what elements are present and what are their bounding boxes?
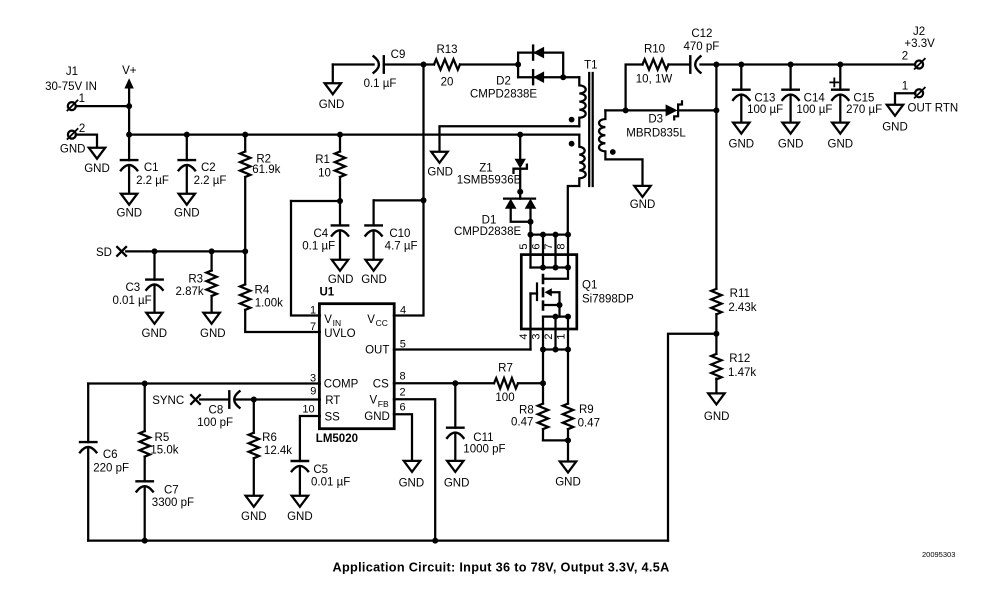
svg-text:3: 3	[531, 333, 543, 339]
svg-text:0.47: 0.47	[578, 418, 600, 430]
capacitor C8 100pF	[228, 391, 230, 407]
svg-text:SYNC: SYNC	[152, 395, 184, 407]
svg-text:6: 6	[400, 402, 406, 414]
resistor R8 0.47	[538, 404, 548, 430]
wire bias winding to ground	[440, 126, 580, 152]
wire GND pin6	[394, 414, 412, 461]
svg-text:R9: R9	[579, 404, 594, 416]
wire output rail to J2	[716, 63, 915, 65]
svg-text:8: 8	[556, 243, 568, 249]
svg-text:100 µF: 100 µF	[747, 104, 783, 116]
wire VIN node horizontal	[291, 200, 340, 202]
svg-text:GND: GND	[328, 274, 354, 286]
wire source right leg	[567, 350, 569, 441]
svg-text:2: 2	[79, 123, 85, 135]
svg-text:1: 1	[556, 333, 568, 339]
svg-text:MBRD835L: MBRD835L	[626, 127, 686, 139]
svg-text:R8: R8	[519, 405, 534, 417]
svg-text:GND: GND	[174, 208, 200, 220]
capacitor C6 220pF	[87, 384, 89, 541]
svg-text:0.01 µF: 0.01 µF	[112, 295, 151, 307]
svg-text:1SMB5936B: 1SMB5936B	[457, 175, 522, 187]
wire D1 cathode bar	[504, 197, 535, 199]
capacitor C3 0.01uF	[153, 251, 155, 312]
resistor R9 0.47	[563, 404, 573, 430]
svg-text:D2: D2	[496, 76, 511, 88]
svg-text:C1: C1	[144, 162, 159, 174]
svg-text:Z1: Z1	[479, 163, 492, 175]
Q1 pin 7	[554, 235, 556, 268]
capacitor C5 0.01uF	[292, 460, 308, 462]
svg-text:R1: R1	[315, 154, 330, 166]
svg-text:0.1 µF: 0.1 µF	[364, 78, 397, 90]
svg-text:U1: U1	[319, 287, 334, 299]
svg-text:1.47k: 1.47k	[728, 367, 756, 379]
wire OUT pin5 to Q1 gate	[394, 348, 531, 350]
ground C14	[782, 123, 798, 134]
Q1 pin 3	[542, 317, 544, 350]
svg-text:GND: GND	[60, 144, 86, 156]
wire to R10	[626, 65, 643, 111]
resistor R7 100	[494, 378, 518, 388]
ground R12	[708, 393, 724, 404]
svg-text:1: 1	[310, 304, 316, 316]
svg-text:GND: GND	[778, 138, 804, 150]
svg-text:30-75V IN: 30-75V IN	[45, 81, 97, 93]
ground C13	[733, 123, 749, 134]
svg-text:9: 9	[310, 385, 316, 397]
Q1 pin 1	[567, 317, 569, 350]
wire SS pin10 to C5	[300, 416, 320, 496]
svg-text:Si7898DP: Si7898DP	[582, 294, 634, 306]
svg-text:C10: C10	[389, 228, 410, 240]
svg-text:LM5020: LM5020	[316, 433, 358, 445]
Q1 drain bar	[531, 266, 569, 268]
resistor R12 1.47k	[711, 354, 721, 380]
Q1 source bar	[543, 315, 568, 317]
Q1 pin 6	[542, 235, 544, 268]
wire D3 anode/cathode	[626, 109, 717, 111]
Q1 source leads	[544, 292, 560, 316]
wire VIN node to pin 1	[291, 201, 320, 316]
svg-text:GND: GND	[630, 199, 656, 211]
svg-text:2.2 µF: 2.2 µF	[136, 175, 169, 187]
ground C3	[146, 313, 162, 324]
ground C5	[292, 496, 308, 507]
svg-text:SS: SS	[325, 411, 341, 423]
svg-text:15.0k: 15.0k	[150, 445, 178, 457]
svg-text:SD: SD	[96, 247, 112, 259]
svg-text:1.00k: 1.00k	[255, 297, 283, 309]
transformer T1 bias winding	[579, 77, 585, 126]
svg-text:20: 20	[441, 77, 454, 89]
Q1 mosfet gate	[536, 284, 538, 301]
svg-text:Q1: Q1	[582, 280, 597, 292]
svg-text:CC: CC	[376, 318, 388, 328]
svg-text:COMP: COMP	[324, 379, 359, 391]
svg-text:+3.3V: +3.3V	[904, 38, 935, 50]
Q1 mosfet channel	[542, 274, 545, 311]
svg-text:C15: C15	[853, 93, 874, 105]
svg-text:GND: GND	[241, 511, 267, 523]
capacitor C2 2.2uF	[186, 135, 188, 194]
svg-text:4: 4	[400, 304, 406, 316]
svg-text:GND: GND	[444, 477, 470, 489]
wire secondary top	[605, 109, 625, 111]
ground C4	[332, 260, 348, 271]
svg-text:R12: R12	[729, 353, 750, 365]
C15 polarity plus	[830, 78, 838, 86]
capacitor C13	[740, 65, 742, 123]
svg-text:5: 5	[518, 243, 530, 249]
svg-text:7: 7	[543, 243, 555, 249]
svg-text:2.43k: 2.43k	[728, 302, 756, 314]
ground C15	[832, 123, 848, 134]
svg-text:J1: J1	[66, 66, 78, 78]
svg-text:CS: CS	[373, 379, 389, 391]
ground R3	[203, 313, 219, 324]
svg-text:RT: RT	[325, 395, 340, 407]
svg-text:2: 2	[543, 333, 555, 339]
svg-text:Application Circuit: Input 36: Application Circuit: Input 36 to 78V, Ou…	[333, 561, 670, 575]
svg-text:C13: C13	[754, 93, 775, 105]
svg-text:GND: GND	[704, 411, 730, 423]
Q1 pin 2	[554, 317, 556, 350]
resistor R6 12.4k	[253, 400, 255, 496]
svg-text:CMPD2838E: CMPD2838E	[470, 88, 537, 100]
svg-text:GND: GND	[882, 122, 908, 134]
resistor R10 10 1W	[643, 59, 669, 69]
wire CS pin8	[394, 382, 543, 384]
svg-text:C9: C9	[391, 49, 406, 61]
svg-text:V: V	[367, 314, 375, 326]
svg-text:100 pF: 100 pF	[197, 417, 233, 429]
ground C9	[325, 83, 341, 94]
ground J1 pin2	[89, 148, 105, 159]
capacitor C12 470pF	[689, 56, 691, 72]
svg-text:2: 2	[400, 387, 406, 399]
ground C1	[121, 194, 137, 205]
connector J2	[915, 61, 923, 69]
svg-text:0.47: 0.47	[511, 417, 533, 429]
svg-text:C5: C5	[313, 464, 328, 476]
svg-text:C7: C7	[164, 484, 179, 496]
svg-text:10: 10	[302, 404, 314, 416]
T1 secondary phase dot	[610, 149, 616, 155]
svg-text:V: V	[324, 314, 332, 326]
svg-text:GND: GND	[427, 167, 453, 179]
capacitor C4 0.1uF	[339, 201, 341, 260]
svg-text:FB: FB	[378, 399, 389, 409]
svg-text:12.4k: 12.4k	[264, 445, 292, 457]
ground R8 R9	[560, 462, 576, 473]
wire output node down to R11	[715, 65, 717, 289]
svg-text:GND: GND	[84, 163, 110, 175]
svg-text:GND: GND	[319, 99, 345, 111]
T1 primary phase dot	[569, 141, 575, 147]
svg-text:1: 1	[79, 93, 85, 105]
resistor R3 2.87k	[210, 251, 212, 312]
capacitor C9 0.1uF	[383, 56, 385, 72]
svg-text:2.2 µF: 2.2 µF	[194, 175, 227, 187]
wire SD line	[126, 250, 245, 252]
svg-text:R11: R11	[730, 288, 750, 300]
resistor R4 1.00k	[245, 251, 320, 332]
Q1 gate pin 4	[529, 294, 531, 350]
wire D2 branches	[518, 53, 579, 78]
ground C2	[179, 194, 195, 205]
svg-text:GND: GND	[364, 411, 390, 423]
transformer T1 secondary winding	[599, 110, 643, 185]
svg-text:IN: IN	[333, 318, 342, 328]
svg-text:V: V	[370, 395, 378, 407]
node V+	[128, 89, 130, 135]
wire COMP pin3	[88, 382, 320, 384]
svg-text:R13: R13	[436, 44, 457, 56]
svg-text:100 µF: 100 µF	[796, 104, 832, 116]
capacitor C15	[839, 65, 841, 123]
svg-text:1: 1	[902, 81, 908, 93]
wire R8 R9 to ground	[543, 440, 568, 461]
Q1 pin 8	[567, 235, 569, 268]
wire Z1 branch	[519, 135, 521, 199]
svg-text:R10: R10	[644, 43, 665, 55]
resistor R2 61.9k	[244, 135, 246, 251]
connector J1	[68, 102, 76, 110]
svg-text:J2: J2	[913, 26, 925, 38]
svg-text:C11: C11	[473, 432, 493, 444]
wire D2 left branch	[517, 53, 519, 78]
capacitor C10 4.7uF	[372, 200, 374, 259]
svg-text:R7: R7	[498, 363, 513, 375]
wire J2 pin1 to ground	[895, 93, 915, 105]
svg-text:3300 pF: 3300 pF	[152, 497, 194, 509]
svg-text:R5: R5	[155, 432, 170, 444]
svg-text:2: 2	[902, 51, 908, 63]
ground C11	[447, 461, 463, 472]
svg-text:C14: C14	[804, 93, 826, 105]
wire C8 to RT pin9	[236, 398, 320, 400]
svg-text:OUT RTN: OUT RTN	[908, 103, 959, 115]
ground OUT RTN	[887, 105, 903, 116]
wire D1 anodes	[511, 209, 531, 235]
wire C9 to R13 to D2	[384, 63, 518, 65]
svg-text:6: 6	[531, 243, 543, 249]
svg-text:GND: GND	[361, 274, 387, 286]
svg-text:20095303: 20095303	[922, 550, 955, 559]
svg-text:220 pF: 220 pF	[93, 462, 129, 474]
svg-text:GND: GND	[117, 208, 143, 220]
wire feedback to bottom rail	[668, 334, 716, 541]
svg-text:10, 1W: 10, 1W	[636, 74, 673, 86]
wire SYNC to C8	[200, 398, 229, 400]
transformer T1 core	[589, 73, 593, 186]
Q1 drain bus	[531, 233, 569, 235]
Q1 body arrow	[545, 288, 552, 296]
wire VCC vertical to pin 4	[394, 65, 424, 316]
svg-text:0.1 µF: 0.1 µF	[302, 241, 335, 253]
capacitor C11 1000pF	[454, 383, 456, 461]
wire input bus V+	[129, 133, 579, 135]
ground R6	[246, 496, 262, 507]
wire source left leg	[542, 350, 544, 441]
svg-text:V+: V+	[122, 65, 137, 77]
wire bottom feedback rail	[88, 539, 668, 541]
resistor R5 15.0k	[144, 384, 146, 482]
ground U1 pin6	[404, 461, 420, 472]
capacitor C7 3300pF	[144, 486, 146, 540]
ground bias winding	[431, 152, 447, 163]
svg-text:R4: R4	[255, 285, 270, 297]
svg-text:0.01 µF: 0.01 µF	[311, 476, 350, 488]
svg-text:C3: C3	[125, 282, 140, 294]
svg-text:61.9k: 61.9k	[252, 164, 280, 176]
svg-text:4: 4	[518, 333, 530, 339]
ground secondary	[634, 186, 650, 197]
resistor R1 10	[339, 135, 341, 201]
svg-text:R6: R6	[262, 432, 277, 444]
svg-text:GND: GND	[729, 138, 755, 150]
svg-text:C8: C8	[209, 404, 224, 416]
svg-text:270 µF: 270 µF	[846, 104, 882, 116]
svg-text:C4: C4	[313, 228, 328, 240]
svg-text:8: 8	[400, 370, 406, 382]
svg-text:D1: D1	[482, 214, 497, 226]
Q1 mosfet drain lead	[544, 268, 569, 279]
resistor R11 2.43k	[711, 289, 721, 315]
capacitor C1 2.2uF	[128, 135, 130, 194]
wire VFB pin2 to feedback rail	[394, 399, 435, 540]
capacitor C14	[789, 65, 791, 123]
svg-text:R3: R3	[188, 273, 203, 285]
resistor R13 20	[434, 59, 460, 69]
svg-text:C6: C6	[103, 449, 118, 461]
ground C10	[365, 260, 381, 271]
wire R10 to C12	[669, 63, 691, 65]
transformer T1 primary winding	[568, 135, 586, 235]
svg-text:10: 10	[318, 167, 331, 179]
svg-text:C12: C12	[691, 28, 712, 40]
svg-text:GND: GND	[200, 328, 226, 340]
wire R11 R12 column	[715, 314, 717, 393]
svg-text:GND: GND	[287, 511, 313, 523]
wire J1 pin1 to V+ node	[76, 105, 129, 107]
svg-text:GND: GND	[555, 477, 581, 489]
Q1 package box	[521, 255, 577, 329]
wire J1 pin2 to ground	[76, 135, 97, 148]
svg-text:C2: C2	[201, 162, 216, 174]
svg-text:D3: D3	[648, 114, 663, 126]
svg-text:OUT: OUT	[365, 345, 389, 357]
wire C12 to output node	[701, 63, 717, 65]
wire C9 gnd stem	[332, 65, 334, 84]
svg-text:4.7 µF: 4.7 µF	[385, 241, 418, 253]
svg-text:GND: GND	[828, 138, 854, 150]
wire gnd to C9	[333, 63, 374, 65]
svg-text:T1: T1	[584, 59, 597, 71]
svg-text:GND: GND	[399, 477, 425, 489]
op-amp U1 LM5020 controller	[319, 304, 394, 429]
svg-text:UVLO: UVLO	[324, 328, 355, 340]
svg-text:100: 100	[495, 392, 514, 404]
svg-text:470 pF: 470 pF	[683, 41, 719, 53]
wire VCC node horizontal	[374, 199, 424, 201]
svg-text:2.87k: 2.87k	[176, 286, 204, 298]
Q1 pin 5	[529, 235, 531, 268]
svg-text:1000 pF: 1000 pF	[463, 444, 505, 456]
svg-text:GND: GND	[142, 328, 168, 340]
T1 bias phase dot	[569, 117, 575, 123]
Q1 source node	[543, 348, 568, 350]
svg-text:CMPD2838E: CMPD2838E	[454, 226, 521, 238]
